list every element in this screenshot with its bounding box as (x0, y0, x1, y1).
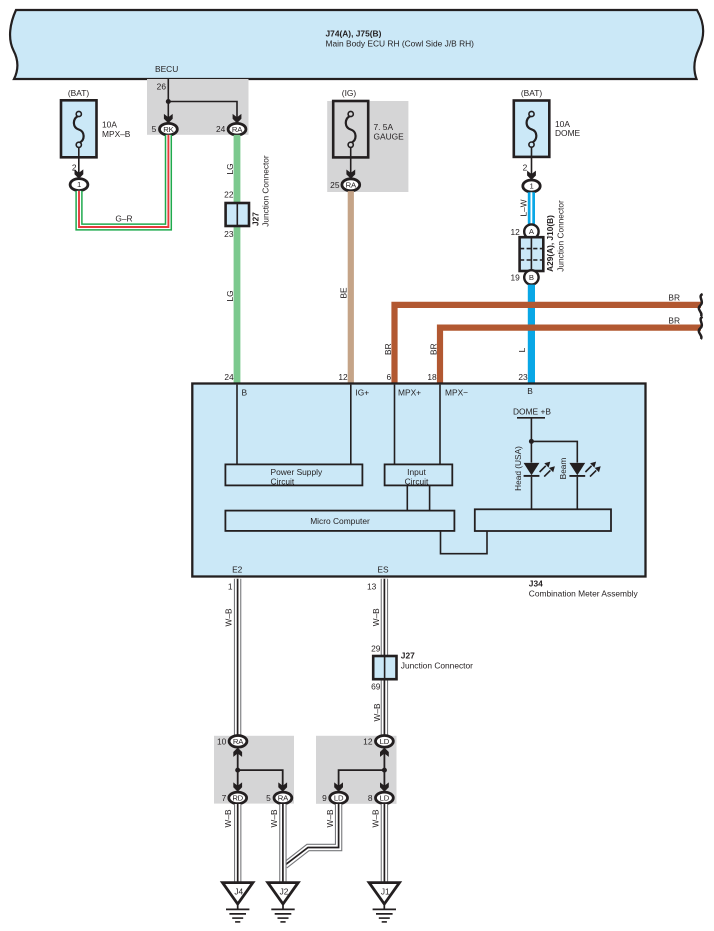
wire fuse to RA 25 (350, 147, 352, 174)
svg-text:13: 13 (367, 582, 377, 592)
arrow into RK (164, 114, 173, 123)
svg-text:24: 24 (224, 372, 234, 382)
svg-text:RA: RA (278, 794, 289, 803)
break squiggle BR 1 (699, 294, 703, 316)
junction connector A29(A), J10(B) (520, 200, 566, 272)
svg-text:W–B: W–B (372, 703, 382, 721)
svg-text:Micro Computer: Micro Computer (310, 516, 370, 526)
wire down to dot (383, 752, 385, 770)
fuse 10A DOME (514, 88, 581, 157)
svg-text:J27: J27 (250, 212, 260, 226)
wire LG (234, 135, 241, 384)
svg-text:W–B: W–B (224, 608, 234, 626)
junction connector J27 (29/69) (373, 651, 473, 680)
svg-text:LD: LD (380, 737, 390, 746)
junction dot (166, 99, 171, 104)
wire W-B LD8 to J1 (381, 804, 388, 883)
terminal LD pin 12 (363, 736, 393, 748)
ground J2 (268, 883, 298, 922)
arrow into connector 1 (75, 169, 84, 178)
wire to RA 24 (168, 102, 237, 118)
svg-text:BE: BE (339, 287, 349, 299)
arrow into connector 1 (527, 171, 536, 180)
LED Head (USA) (524, 462, 555, 510)
wire down to RD 7 (237, 770, 239, 786)
input circuit box (385, 464, 453, 486)
svg-text:(BAT): (BAT) (68, 88, 89, 98)
wire W-B RA5 to J2 (279, 804, 286, 883)
svg-text:7. 5A: 7. 5A (374, 122, 394, 132)
break squiggle BR 2 (699, 317, 703, 339)
wire micro computer to lamp driver box (441, 531, 488, 554)
svg-text:25: 25 (330, 180, 340, 190)
svg-text:L: L (517, 347, 527, 352)
svg-text:GAUGE: GAUGE (374, 131, 405, 141)
svg-text:LG: LG (225, 163, 235, 174)
svg-text:J1: J1 (381, 887, 390, 897)
svg-text:BR: BR (383, 343, 393, 355)
power supply circuit box (225, 464, 362, 486)
ground J1 (369, 883, 399, 922)
LED Beam (569, 462, 600, 510)
internal wire MPX- (439, 385, 441, 465)
internal wire B (236, 385, 238, 465)
svg-text:J27: J27 (401, 651, 415, 661)
svg-text:BR: BR (668, 315, 680, 325)
svg-text:(IG): (IG) (342, 88, 357, 98)
svg-text:7: 7 (222, 793, 227, 803)
svg-text:RK: RK (163, 125, 174, 134)
wire W-B LD9 joining J2 (285, 804, 339, 866)
svg-text:Main Body ECU RH (Cowl Side J/: Main Body ECU RH (Cowl Side J/B RH) (326, 39, 475, 49)
svg-text:LD: LD (380, 794, 390, 803)
wire fuse to connector 1 (531, 147, 533, 174)
wire W-B from ES (381, 579, 388, 736)
svg-text:ES: ES (377, 564, 389, 574)
terminal RA pin 25 (330, 179, 360, 191)
svg-text:DOME: DOME (555, 128, 581, 138)
svg-text:10: 10 (217, 737, 227, 747)
fuse 7.5A GAUGE (333, 88, 404, 157)
svg-text:G–R: G–R (115, 214, 132, 224)
svg-text:RA: RA (232, 125, 243, 134)
svg-text:B: B (527, 386, 533, 396)
connector terminal 1 (MPX-B) (70, 179, 88, 191)
svg-text:12: 12 (338, 372, 348, 382)
svg-text:L–W: L–W (519, 199, 529, 216)
svg-text:W–B: W–B (371, 608, 381, 626)
wire BE (348, 191, 354, 383)
svg-text:5: 5 (266, 793, 271, 803)
arrow into RA 25 (346, 170, 355, 179)
junction dot (235, 768, 240, 773)
fuse 10A MPX-B (61, 88, 131, 157)
svg-text:J4: J4 (234, 887, 243, 897)
svg-text:23: 23 (518, 372, 528, 382)
svg-text:Junction Connector: Junction Connector (401, 661, 473, 671)
svg-text:24: 24 (216, 124, 226, 134)
svg-text:J74(A), J75(B): J74(A), J75(B) (326, 28, 382, 38)
svg-text:W–B: W–B (269, 809, 279, 827)
svg-text:J2: J2 (280, 887, 289, 897)
svg-text:Circuit: Circuit (405, 476, 429, 486)
wire L-W (528, 192, 535, 225)
gray region RA/RD terminals (214, 736, 294, 804)
svg-text:19: 19 (510, 273, 520, 283)
wire G-R (79, 135, 168, 227)
svg-text:1: 1 (228, 582, 233, 592)
wire to head LED (530, 441, 532, 462)
svg-text:Beam: Beam (558, 458, 568, 480)
svg-text:1: 1 (529, 182, 533, 191)
wire BR 2 (MPX-) (440, 328, 701, 384)
svg-text:26: 26 (157, 82, 167, 92)
terminal RA pin 10 (217, 736, 247, 748)
terminal RK pin 5 (152, 123, 178, 135)
svg-text:Junction Connector: Junction Connector (260, 155, 270, 227)
wire BR 1 (MPX+) (395, 305, 702, 384)
DOME +B rail (517, 417, 545, 419)
svg-text:MPX+: MPX+ (398, 387, 421, 397)
svg-text:E2: E2 (232, 564, 243, 574)
wire W-B from E2 (234, 579, 241, 736)
svg-text:29: 29 (371, 643, 381, 653)
svg-text:RA: RA (233, 737, 244, 746)
terminal LD pin 9 (322, 792, 347, 804)
svg-text:2: 2 (523, 162, 528, 172)
gray region LD terminals (316, 736, 397, 804)
wire L (528, 285, 535, 384)
wire BECU drop (167, 79, 169, 118)
ground J4 (223, 883, 253, 922)
wires input to micro computer (406, 485, 408, 510)
internal wire MPX+ (394, 385, 396, 465)
svg-text:LG: LG (225, 290, 235, 301)
svg-text:12: 12 (363, 737, 373, 747)
svg-text:BECU: BECU (155, 64, 178, 74)
connector terminal 1 (DOME) (523, 180, 540, 192)
svg-text:BR: BR (668, 293, 680, 303)
terminal RA pin 5 (266, 792, 292, 804)
svg-text:MPX−: MPX− (445, 387, 468, 397)
svg-text:1: 1 (77, 180, 81, 189)
terminal LD pin 8 (368, 792, 393, 804)
arrow into RA 5 (278, 782, 287, 791)
wire branch right (238, 770, 283, 786)
wire branch left (339, 770, 385, 786)
arrow into LD 9 (334, 782, 343, 791)
svg-text:6: 6 (387, 372, 392, 382)
arrow up into RA 10 (233, 748, 242, 757)
svg-text:8: 8 (368, 793, 373, 803)
wire branch to beam LED (531, 441, 577, 462)
svg-text:W–B: W–B (223, 809, 233, 827)
svg-text:A29(A), J10(B): A29(A), J10(B) (545, 215, 555, 272)
micro computer box (225, 511, 454, 531)
svg-text:18: 18 (427, 372, 437, 382)
junction connector J27 (22/23) (226, 155, 271, 227)
svg-text:Circuit: Circuit (271, 476, 295, 486)
internal wire IG+ (350, 385, 352, 465)
svg-text:(BAT): (BAT) (521, 88, 542, 98)
svg-text:69: 69 (371, 682, 381, 692)
svg-text:12: 12 (510, 227, 520, 237)
svg-text:MPX–B: MPX–B (102, 129, 131, 139)
svg-text:Head (USA): Head (USA) (513, 446, 523, 491)
terminal B pin 19 (510, 270, 538, 284)
wire down to LD 8 (383, 770, 385, 786)
svg-text:W–B: W–B (371, 809, 381, 827)
svg-text:Junction Connector: Junction Connector (555, 200, 565, 272)
svg-text:J34: J34 (529, 578, 543, 588)
svg-text:LD: LD (334, 794, 344, 803)
wire down to dot (237, 752, 239, 770)
svg-text:10A: 10A (102, 119, 117, 129)
wire fuse to connector 1 (78, 147, 80, 174)
arrow into LD 8 (380, 782, 389, 791)
wire W-B RD7 to J4 (234, 804, 241, 883)
svg-text:22: 22 (224, 190, 234, 200)
arrow into RA 24 (233, 114, 242, 123)
svg-text:9: 9 (322, 793, 327, 803)
left relay wiring (233, 748, 287, 792)
svg-text:5: 5 (152, 124, 157, 134)
junction dot (529, 439, 534, 444)
svg-text:RA: RA (346, 180, 357, 189)
svg-text:DOME +B: DOME +B (513, 406, 551, 416)
svg-text:BR: BR (428, 343, 438, 355)
right relay wiring (334, 748, 389, 792)
gray region RK/RA terminals (147, 79, 249, 135)
svg-text:IG+: IG+ (355, 387, 369, 397)
wire DOME +B drop (530, 418, 532, 442)
J/B banner J74(A), J75(B) (10, 10, 703, 79)
junction dot (382, 768, 387, 773)
terminal A pin 12 (510, 224, 538, 238)
combination meter block J34 (192, 384, 645, 577)
svg-text:B: B (242, 387, 248, 397)
svg-text:B: B (529, 273, 534, 282)
svg-text:23: 23 (224, 229, 234, 239)
lamp driver box (475, 509, 611, 531)
arrow up into LD 12 (380, 748, 389, 757)
gray region GAUGE fuse (327, 101, 408, 192)
svg-text:RD: RD (232, 794, 243, 803)
svg-text:W–B: W–B (325, 809, 335, 827)
terminal RA pin 24 (216, 123, 246, 135)
arrow into RD 7 (233, 782, 242, 791)
terminal RD pin 7 (222, 792, 247, 804)
svg-text:Combination Meter Assembly: Combination Meter Assembly (529, 589, 639, 599)
